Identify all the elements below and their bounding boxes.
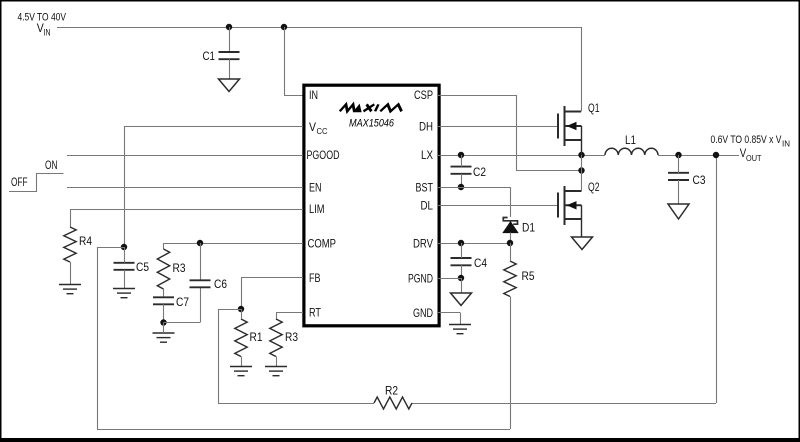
diode D1	[503, 218, 517, 225]
ground R1	[230, 367, 252, 376]
ground C3	[668, 204, 689, 219]
wire CSP	[437, 95, 516, 97]
svg-text:ON: ON	[45, 158, 58, 172]
ground C7	[153, 333, 175, 342]
svg-text:DH: DH	[419, 120, 433, 134]
wire ON-OFF step	[9, 174, 64, 192]
wire DL	[437, 205, 558, 207]
svg-text:R4: R4	[79, 234, 92, 248]
wire FB	[241, 277, 303, 279]
node FB junction	[238, 306, 244, 312]
capacitor C5	[114, 263, 135, 270]
ground GND	[449, 325, 471, 334]
svg-text:C2: C2	[473, 165, 486, 179]
svg-text:BST: BST	[416, 181, 434, 195]
wire PGOOD	[67, 155, 303, 157]
node DRV-D1-R5 junction	[507, 240, 513, 246]
svg-text:IN: IN	[44, 28, 51, 38]
node VIN-IN junction	[281, 24, 287, 30]
wire R5 leads	[510, 243, 512, 261]
wire C4 leads	[461, 243, 463, 258]
svg-text:R2: R2	[385, 384, 398, 398]
svg-text:OFF: OFF	[11, 175, 28, 189]
resistor R3	[157, 249, 169, 289]
svg-text:Q1: Q1	[588, 101, 600, 115]
capacitor C6	[190, 280, 211, 287]
capacitor C1	[219, 52, 240, 59]
wire C3 leads	[678, 155, 680, 173]
svg-text:CC: CC	[317, 126, 328, 136]
capacitor C4	[451, 258, 472, 265]
svg-text:LX: LX	[421, 148, 433, 162]
node BST-C2 junction	[458, 184, 464, 190]
svg-text:R3: R3	[285, 330, 298, 344]
svg-text:Q2: Q2	[588, 180, 600, 194]
wire IN pin	[284, 27, 286, 95]
wire C7 gnd lead	[163, 323, 165, 334]
wire VIN rail	[57, 27, 581, 29]
inductor L1	[605, 148, 658, 155]
wire COMP	[164, 243, 304, 245]
wire C6 leads	[200, 243, 202, 280]
resistor R1	[235, 319, 247, 357]
wire VCC	[124, 126, 303, 128]
svg-text:LIM: LIM	[309, 202, 325, 216]
svg-text:L1: L1	[625, 133, 636, 147]
node VIN-C1 junction	[226, 24, 232, 30]
node COMP-C6 junction	[197, 240, 203, 246]
resistor R2	[374, 397, 412, 409]
wire R1 leads	[241, 309, 243, 319]
wire C1 top lead	[229, 27, 231, 52]
svg-text:COMP: COMP	[308, 237, 337, 251]
svg-text:DL: DL	[421, 199, 434, 213]
svg-text:R5: R5	[522, 269, 535, 283]
svg-text:MAX15046: MAX15046	[349, 118, 395, 130]
wire Q1 drain to VIN	[581, 27, 583, 112]
svg-text:CSP: CSP	[414, 88, 433, 102]
node LX-C2 junction	[458, 152, 464, 158]
wire DRV	[437, 243, 510, 245]
node LX-Q1 junction	[578, 152, 584, 158]
svg-text:GND: GND	[413, 306, 433, 320]
ground C5	[113, 289, 135, 298]
wire VCC to feedback rail	[97, 247, 124, 249]
svg-text:0.6V TO 0.85V x V: 0.6V TO 0.85V x V	[711, 134, 783, 146]
capacitor C3	[668, 173, 689, 180]
ground Q2	[572, 237, 593, 250]
wire RT	[276, 312, 303, 314]
wire LX	[437, 155, 605, 157]
transistor Q1	[558, 106, 582, 146]
capacitor C7	[153, 297, 174, 304]
svg-text:C7: C7	[176, 295, 189, 309]
node C7-C6 junction	[160, 319, 166, 325]
svg-text:DRV: DRV	[413, 237, 433, 251]
wire C5 leads	[124, 247, 126, 263]
wire EN	[67, 187, 303, 189]
wire R3-C7 lead	[163, 289, 165, 297]
svg-text:C6: C6	[214, 277, 227, 291]
svg-text:D1: D1	[522, 221, 535, 235]
transistor Q2	[558, 186, 582, 225]
node VCC-C5 junction	[121, 244, 127, 250]
svg-text:PGOOD: PGOOD	[307, 148, 340, 162]
wire R3b bottom lead	[276, 357, 278, 367]
wire R4 bottom lead	[70, 262, 72, 285]
svg-text:V: V	[309, 120, 316, 134]
wire LIM	[70, 209, 303, 211]
svg-text:IN: IN	[309, 88, 318, 102]
svg-text:FB: FB	[309, 271, 321, 285]
wire R2 rail	[218, 403, 374, 405]
svg-text:R1: R1	[250, 330, 263, 344]
wire GND	[437, 312, 460, 314]
capacitor C2	[451, 167, 472, 174]
wire PGND	[437, 278, 461, 280]
wire DH	[437, 126, 558, 128]
svg-text:C5: C5	[136, 260, 149, 274]
IC logo MAXIM	[340, 104, 404, 111]
node VOUT-C3 junction	[675, 152, 681, 158]
node PGND-C4 junction	[458, 275, 464, 281]
ground C1	[219, 79, 240, 92]
wire C7 bottom lead	[163, 304, 165, 322]
ground PGND	[451, 293, 472, 306]
svg-text:RT: RT	[309, 306, 322, 320]
svg-text:EN: EN	[309, 181, 322, 195]
svg-text:C1: C1	[203, 49, 216, 63]
node DRV-C4 junction	[458, 240, 464, 246]
svg-text:IN: IN	[782, 140, 790, 149]
resistor R3b	[270, 319, 282, 357]
resistor R5	[504, 261, 516, 297]
wire FB to R2	[218, 309, 241, 311]
wire C2 leads	[461, 155, 463, 167]
wire VOUT	[658, 155, 739, 157]
ground R4	[59, 285, 81, 294]
svg-text:C3: C3	[693, 173, 706, 187]
op-amp U1 MAX15046 box	[304, 85, 439, 326]
svg-text:OUT: OUT	[746, 153, 762, 163]
svg-text:C4: C4	[474, 256, 487, 270]
resistor R4	[64, 227, 76, 262]
wire C1 bottom lead	[229, 59, 231, 79]
node CSP-Q2 junction	[578, 167, 584, 173]
wire BST	[437, 187, 510, 189]
node VOUT-R2 junction	[713, 152, 719, 158]
ground R3b	[265, 367, 287, 376]
wire Q2 drain to LX	[581, 155, 583, 191]
svg-text:R3: R3	[173, 261, 186, 275]
svg-text:PGND: PGND	[408, 272, 433, 286]
